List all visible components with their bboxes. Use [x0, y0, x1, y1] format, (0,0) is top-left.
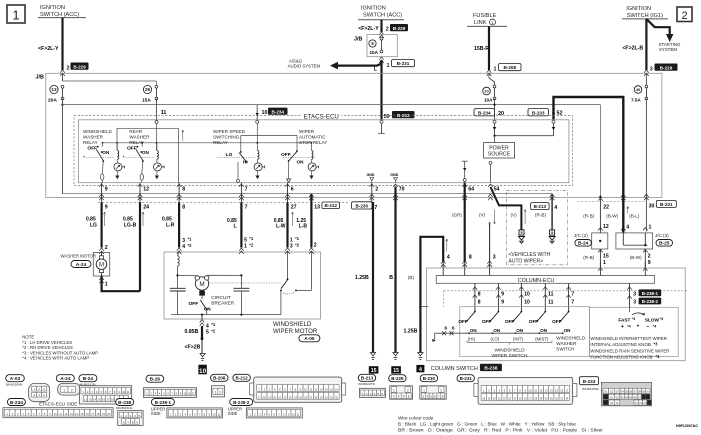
svg-text:4: 4	[398, 395, 400, 399]
ground wire pin70 B	[394, 187, 396, 353]
svg-text:59: 59	[384, 114, 390, 120]
svg-text:*: *	[83, 156, 85, 162]
svg-text:+: +	[621, 324, 624, 330]
svg-text:*: *	[123, 156, 125, 162]
svg-text:11: 11	[161, 110, 167, 116]
svg-text:SYSTEM: SYSTEM	[659, 47, 677, 52]
connector B-213 drawing	[358, 374, 375, 381]
relay coil feed rail	[103, 142, 312, 144]
svg-text:(LO): (LO)	[491, 337, 500, 342]
ETACS pin 54	[488, 184, 493, 187]
connector B-238 drawing	[116, 399, 134, 406]
adjusting knob box	[590, 307, 679, 356]
svg-text:B-231: B-231	[460, 376, 473, 381]
svg-text:1: 1	[63, 388, 65, 392]
svg-text:2: 2	[375, 187, 378, 193]
svg-text:*1 : LH DRIVE VEHICLES: *1 : LH DRIVE VEHICLES	[22, 340, 72, 345]
svg-text:62: 62	[615, 395, 619, 399]
ETACS-ECU dashed boundary	[74, 116, 572, 186]
rail to ground arrow	[434, 333, 436, 338]
motor armature	[176, 274, 178, 276]
connector B-26	[146, 375, 164, 382]
ETACS-ECU inner solid box	[79, 120, 569, 183]
park switch to ground rail	[280, 290, 282, 314]
wires into column ecu	[442, 262, 444, 276]
relay3/4 switch rail	[241, 134, 297, 136]
wire fuse13 down-left edge	[62, 99, 64, 194]
svg-text:(MU804796): (MU804796)	[582, 387, 599, 391]
svg-text:(MU802273): (MU802273)	[358, 382, 375, 386]
svg-text:20A: 20A	[48, 97, 57, 103]
svg-text:SWITCH (ACC): SWITCH (ACC)	[363, 13, 402, 19]
J/C(3) output pins 2 9 (B-W)	[644, 249, 646, 268]
svg-text:ON: ON	[142, 150, 150, 155]
svg-text:COLUMN SWITCH: COLUMN SWITCH	[431, 366, 478, 372]
svg-text:(MU802096): (MU802096)	[6, 383, 23, 387]
wire pin8 0.85 L-R	[178, 202, 180, 247]
svg-text:8: 8	[478, 299, 481, 305]
svg-text:(R-B): (R-B)	[535, 213, 546, 218]
svg-text:ON: ON	[297, 159, 305, 164]
svg-text:IGNITION: IGNITION	[40, 5, 65, 11]
ground symbol 10	[200, 354, 205, 357]
connector B-231 drawing	[457, 375, 474, 382]
internal ground rail	[171, 314, 281, 316]
connector B-234 pin 20	[474, 109, 495, 116]
svg-text:B-238-1: B-238-1	[155, 400, 172, 405]
svg-text:GND: GND	[390, 173, 398, 177]
svg-text:AUDIO SYSTEM: AUDIO SYSTEM	[288, 63, 321, 68]
svg-text:SWITCH (IG1): SWITCH (IG1)	[627, 13, 663, 19]
svg-text:(R-B): (R-B)	[583, 214, 594, 219]
ETACS pin 2	[370, 184, 375, 187]
svg-text:(MIST): (MIST)	[535, 337, 549, 342]
svg-text:BREAKER: BREAKER	[211, 301, 234, 307]
svg-text:SLOW: SLOW	[645, 318, 660, 323]
svg-text:L-W: L-W	[276, 224, 286, 230]
svg-text:61: 61	[610, 395, 614, 399]
svg-text:A-24: A-24	[76, 262, 87, 268]
power rail lower	[63, 193, 553, 195]
wire pin3 column (V)	[489, 224, 491, 262]
wire washer motor return 0.85 LG-B	[139, 202, 141, 291]
svg-text:WINDSHIELD: WINDSHIELD	[556, 336, 586, 341]
ETACS pin 6	[285, 184, 290, 187]
svg-text:REAR: REAR	[129, 129, 142, 134]
thick feed to B-233 52 and J/C(3)	[554, 97, 624, 232]
wiper switch sub box	[460, 307, 590, 357]
svg-text:OFF: OFF	[552, 319, 562, 324]
ETACS pin 12	[138, 184, 143, 187]
wire ACC2 to ETACS pin 59	[380, 60, 382, 120]
svg-text:B-212: B-212	[235, 376, 248, 381]
svg-text:SWITCHING: SWITCHING	[213, 135, 240, 140]
wire fusible link down	[488, 26, 490, 70]
wire B-213 4 (R-B)	[551, 194, 553, 230]
svg-text:*3 : VEHICLES WITHOUT AUTO LAM: *3 : VEHICLES WITHOUT AUTO LAMP	[22, 350, 98, 355]
relay supply rail	[155, 121, 158, 124]
svg-text:4: 4	[554, 205, 557, 211]
wiper motor exit	[201, 315, 203, 319]
junction node under fuse 13	[61, 104, 63, 106]
svg-text:B-238-2: B-238-2	[642, 299, 659, 304]
svg-text:70: 70	[610, 401, 614, 405]
wire ACC2 down	[380, 20, 382, 32]
page ref box 1	[7, 5, 25, 23]
svg-text:POWER: POWER	[489, 145, 509, 151]
svg-text:1: 1	[494, 67, 497, 73]
svg-text:B-213: B-213	[534, 204, 547, 209]
svg-text:LG: LG	[90, 223, 97, 229]
power source circuit	[493, 120, 496, 123]
svg-text:20: 20	[498, 111, 504, 117]
svg-text:WIPER MOTOR: WIPER MOTOR	[273, 328, 318, 335]
svg-text:10A: 10A	[370, 50, 379, 55]
svg-text:26: 26	[145, 87, 151, 92]
wiper motor pins 4*1 5*2	[200, 320, 205, 323]
ground wire 0.85B	[201, 326, 203, 339]
svg-text:WINDSHIELD RAIN SENSITIVE WIPE: WINDSHIELD RAIN SENSITIVE WIPER	[590, 349, 669, 354]
wire to washer motor 0.85 LG	[100, 202, 102, 247]
svg-text:J/B: J/B	[354, 37, 362, 43]
svg-text:7: 7	[374, 205, 377, 211]
svg-text:70: 70	[399, 187, 405, 193]
svg-text:WASHER: WASHER	[556, 341, 577, 346]
svg-text:12: 12	[603, 224, 609, 230]
auto wiper shield terminal 1	[519, 230, 524, 235]
svg-text:ON: ON	[470, 328, 477, 333]
svg-text:6: 6	[408, 395, 410, 399]
svg-text:B-229: B-229	[660, 65, 673, 70]
wire ACC1 down	[61, 18, 63, 70]
svg-text:7: 7	[245, 187, 248, 193]
motor feed wire inside box	[310, 252, 312, 290]
svg-text:<F>2B: <F>2B	[185, 344, 201, 350]
svg-text:ON: ON	[564, 328, 571, 333]
svg-text:ON: ON	[516, 328, 523, 333]
fuse 9 10A	[380, 37, 383, 40]
svg-text:(INT): (INT)	[513, 337, 524, 342]
svg-text:1: 1	[105, 281, 108, 287]
svg-text:FUNCTION ADJUSTING KNOB: FUNCTION ADJUSTING KNOB	[590, 355, 652, 360]
capacitor right	[234, 287, 250, 289]
svg-text:B-208: B-208	[503, 65, 516, 70]
svg-text:24: 24	[143, 205, 149, 211]
svg-text:ON: ON	[102, 150, 110, 155]
svg-text:B: B	[389, 275, 393, 281]
column switch outer box	[427, 268, 686, 361]
svg-text:B-229: B-229	[393, 26, 406, 31]
svg-text:B-238: B-238	[118, 400, 131, 406]
connector B-234 pin 10 into ETACS	[256, 105, 258, 120]
svg-text:IGNITION: IGNITION	[361, 6, 386, 12]
svg-text:B-230: B-230	[355, 204, 368, 209]
auto stop relay coil	[311, 143, 313, 151]
svg-text:B-212: B-212	[324, 203, 337, 208]
svg-text:NOTE: NOTE	[22, 335, 34, 340]
wire pin7 0.85 L	[240, 202, 242, 247]
motor lower terminal	[199, 291, 205, 296]
svg-text:10A: 10A	[484, 98, 493, 103]
wiper motor box A-05	[164, 252, 321, 319]
svg-text:11: 11	[548, 292, 554, 298]
svg-text:(B-L): (B-L)	[629, 214, 640, 219]
svg-text:GND: GND	[367, 173, 375, 177]
junction connector J/C(3) B-25	[616, 233, 653, 249]
svg-text:RELAY: RELAY	[83, 140, 98, 145]
svg-text:<VEHICLES WITH: <VEHICLES WITH	[509, 252, 551, 258]
svg-text:B-233: B-233	[532, 110, 545, 115]
wire right rail down	[599, 105, 601, 197]
svg-text:2: 2	[681, 10, 687, 22]
wire 30 B-231 (B-L)	[644, 194, 649, 197]
svg-text:*1: *1	[188, 237, 193, 242]
svg-text:*3: *3	[654, 342, 659, 347]
svg-text:M: M	[99, 263, 104, 269]
svg-text:2: 2	[105, 245, 108, 251]
svg-text:A-05: A-05	[304, 336, 315, 342]
junction connector J/C(2) B-24	[592, 233, 608, 249]
svg-text:(MU801514): (MU801514)	[116, 406, 133, 410]
thick wire 52 to J/C(3) pin 4 (B-W)	[621, 194, 626, 197]
svg-text:M: M	[199, 281, 204, 288]
svg-text:OFF: OFF	[458, 319, 468, 324]
svg-text:SOURCE: SOURCE	[488, 152, 511, 158]
svg-text:OFF: OFF	[87, 146, 97, 152]
wire fuse10 down	[489, 73, 495, 86]
svg-text:OFF: OFF	[482, 319, 492, 324]
svg-text:ON: ON	[540, 328, 547, 333]
svg-text:2: 2	[440, 388, 442, 392]
svg-text:1: 1	[423, 388, 425, 392]
svg-text:B-24: B-24	[83, 376, 94, 382]
svg-text:(R-B): (R-B)	[583, 255, 594, 260]
ground symbol 15 right	[393, 353, 398, 356]
svg-text:3: 3	[650, 66, 653, 72]
fuse 26 15A	[155, 81, 157, 87]
svg-text:4: 4	[626, 225, 629, 231]
svg-text:OFF: OFF	[127, 146, 137, 152]
svg-text:10: 10	[199, 368, 207, 375]
svg-text:FUSIBLE: FUSIBLE	[473, 13, 497, 19]
svg-text:B-26: B-26	[150, 377, 161, 383]
svg-text:ON: ON	[493, 328, 500, 333]
wire pin2 to B-230 7	[371, 183, 373, 202]
column switch ground wire (B) 1.25B	[420, 237, 443, 353]
J/C(2) pins 15 1	[599, 249, 601, 268]
svg-text:*2: *2	[188, 243, 193, 248]
svg-text:WASHER: WASHER	[83, 135, 104, 140]
svg-text:27: 27	[291, 205, 297, 211]
connector B-233 pin 52	[528, 109, 549, 116]
svg-text:B-234: B-234	[478, 110, 491, 115]
column pin 4	[446, 239, 448, 251]
B-238 connector dashed line	[444, 290, 688, 292]
svg-text:6: 6	[291, 187, 294, 193]
svg-text:B-24: B-24	[578, 241, 589, 247]
svg-text:5: 5	[403, 395, 405, 399]
svg-text:*1: *1	[211, 322, 216, 327]
svg-text:ETACS-ECU SIDE: ETACS-ECU SIDE	[39, 402, 77, 407]
svg-text:8: 8	[182, 187, 185, 193]
svg-text:51: 51	[604, 390, 608, 394]
svg-text:(B-W): (B-W)	[606, 214, 618, 219]
svg-text:15A: 15A	[142, 97, 151, 103]
svg-text:9: 9	[501, 299, 504, 305]
connector B-230 drawing	[420, 375, 437, 382]
svg-text:10: 10	[524, 292, 530, 298]
svg-text:10: 10	[524, 299, 530, 305]
svg-text:3: 3	[182, 238, 185, 244]
connector dashed line right	[578, 200, 645, 202]
svg-text:B-229: B-229	[73, 64, 86, 69]
connector B-238-2 drawing	[230, 399, 253, 406]
svg-text:*1: *1	[249, 236, 254, 241]
svg-text:B-234: B-234	[10, 400, 23, 406]
svg-text:*2: *2	[211, 329, 216, 334]
svg-text:LINK: LINK	[474, 20, 487, 26]
svg-text:1.25B: 1.25B	[355, 275, 369, 281]
svg-text:2: 2	[71, 388, 73, 392]
svg-text:<F>2L-Y: <F>2L-Y	[38, 46, 59, 52]
svg-text:6: 6	[445, 325, 448, 330]
svg-text:0.85B: 0.85B	[185, 329, 199, 335]
svg-text:(V): (V)	[479, 213, 486, 218]
svg-text:53: 53	[615, 390, 619, 394]
svg-text:SWITCH: SWITCH	[556, 347, 574, 352]
svg-text:5: 5	[244, 238, 247, 244]
wire 22 (R-B) to J/C(2)	[599, 197, 601, 233]
svg-text:<F>2L-B: <F>2L-B	[622, 45, 643, 51]
connector B-233 drawing	[580, 377, 599, 385]
fuse 40 7.5A	[645, 73, 647, 86]
washer motor return wire	[102, 276, 140, 291]
svg-text:15: 15	[393, 368, 399, 374]
branch to starting system	[646, 19, 669, 35]
svg-text:10: 10	[484, 89, 489, 94]
svg-text:40: 40	[636, 87, 641, 92]
svg-text:IGNITION: IGNITION	[626, 6, 651, 12]
svg-text:3: 3	[493, 255, 496, 261]
svg-text:2: 2	[67, 66, 70, 72]
wiper switch bracket	[467, 341, 552, 343]
svg-text:13: 13	[314, 205, 320, 211]
svg-text:SIDE: SIDE	[151, 411, 161, 416]
svg-text:B-213: B-213	[361, 376, 374, 381]
svg-text:9: 9	[501, 292, 504, 298]
svg-text:*1: *1	[295, 236, 300, 241]
svg-text:3: 3	[290, 244, 293, 250]
connector B-212 drawing	[233, 374, 250, 381]
svg-text:1: 1	[387, 63, 390, 69]
svg-text:L-B: L-B	[299, 224, 308, 230]
power rail to right	[63, 104, 601, 106]
svg-text:8: 8	[469, 255, 472, 261]
svg-text:B-233: B-233	[583, 379, 596, 384]
svg-text:9: 9	[648, 260, 651, 266]
wire fuse26 to ETACS pin 11	[155, 99, 157, 121]
wire pin27 0.85 L-W	[286, 202, 288, 247]
fuse rail top	[63, 80, 157, 82]
svg-text:11: 11	[548, 299, 554, 305]
svg-text:WINDSHIELD: WINDSHIELD	[83, 129, 113, 134]
column ecu output wires	[474, 283, 476, 311]
svg-text:−: −	[646, 324, 649, 330]
pin59 internal wire	[380, 120, 383, 123]
svg-text:8: 8	[182, 205, 185, 211]
svg-text:15: 15	[371, 368, 377, 374]
wire fuse40 to B-231 30	[645, 99, 647, 232]
svg-text:3: 3	[633, 292, 636, 298]
svg-text:B-238-2: B-238-2	[233, 400, 250, 405]
page ref box 2	[677, 7, 692, 22]
svg-text:AUTO WIPER>: AUTO WIPER>	[509, 258, 544, 264]
ETACS pin 7	[239, 184, 244, 187]
connector B-238-1 drawing	[151, 399, 174, 406]
svg-text:AUTOMATIC: AUTOMATIC	[299, 135, 326, 140]
svg-text:J/B: J/B	[36, 74, 44, 80]
svg-text:4: 4	[447, 255, 450, 261]
svg-text:J/C (2): J/C (2)	[574, 233, 588, 238]
ground symbol 4	[418, 353, 423, 356]
svg-text:3: 3	[633, 299, 636, 305]
svg-text:*2: *2	[295, 243, 300, 248]
svg-text:SIDE: SIDE	[228, 411, 238, 416]
svg-text:B-25: B-25	[659, 241, 670, 247]
power source box	[484, 143, 515, 158]
svg-text:1: 1	[649, 225, 652, 231]
svg-text:WINDSHIELD INTERMITTENT WIPER: WINDSHIELD INTERMITTENT WIPER	[590, 336, 667, 341]
svg-text:OFF: OFF	[189, 301, 199, 307]
svg-text:2: 2	[314, 242, 317, 248]
svg-text:2: 2	[220, 391, 222, 395]
svg-text:WASHER: WASHER	[129, 135, 150, 140]
svg-text:6: 6	[452, 325, 455, 330]
connector B-229 drawing	[389, 375, 406, 382]
svg-text:54: 54	[494, 187, 500, 193]
svg-text:INTERVAL ADJUSTING KNOB: INTERVAL ADJUSTING KNOB	[590, 342, 650, 347]
ETACS pin 70	[393, 184, 398, 187]
svg-text:(GR): (GR)	[452, 213, 462, 218]
vehicles with auto wiper dashed box	[506, 190, 567, 264]
svg-text:13: 13	[51, 87, 57, 92]
svg-text:*4: *4	[656, 354, 661, 359]
svg-text:1: 1	[603, 260, 606, 266]
svg-text:B-229: B-229	[391, 376, 404, 381]
svg-text:B-231: B-231	[660, 202, 673, 207]
svg-text:7.5A: 7.5A	[631, 98, 641, 103]
wire IG1 down	[645, 19, 647, 70]
svg-text:*2: *2	[249, 243, 254, 248]
connector B-24	[79, 375, 97, 382]
capacitor left	[170, 287, 186, 289]
svg-text:7: 7	[571, 299, 574, 305]
svg-text:A-03: A-03	[10, 376, 21, 382]
svg-text:CIRCUIT: CIRCUIT	[211, 295, 231, 301]
column-ecu title bar	[436, 276, 654, 284]
svg-text:71: 71	[615, 401, 619, 405]
svg-text:WIPER SWITCH: WIPER SWITCH	[492, 353, 529, 359]
connector A-24	[56, 375, 74, 382]
svg-text:52: 52	[610, 390, 614, 394]
svg-text:*4 : VEHICLES WITH AUTO LAMP: *4 : VEHICLES WITH AUTO LAMP	[22, 356, 89, 361]
svg-text:FAST: FAST	[618, 318, 630, 323]
svg-text:1: 1	[290, 238, 293, 244]
wiper speed relay coil	[256, 123, 258, 150]
svg-text:10: 10	[262, 110, 268, 116]
svg-text:9: 9	[105, 205, 108, 211]
svg-text:4: 4	[419, 367, 422, 373]
